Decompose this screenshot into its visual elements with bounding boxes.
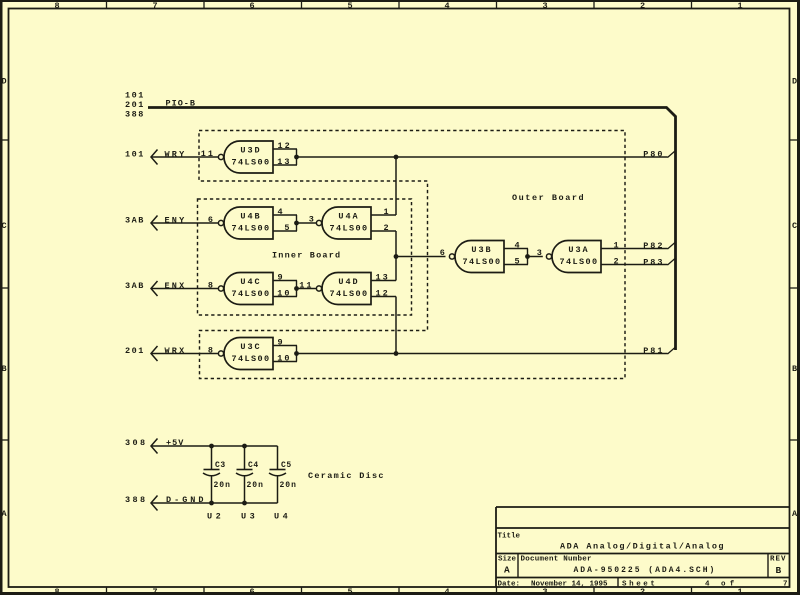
svg-text:1: 1: [384, 207, 390, 217]
svg-text:P81: P81: [643, 346, 664, 356]
svg-text:12: 12: [278, 141, 292, 151]
svg-text:8: 8: [208, 346, 215, 356]
svg-text:12: 12: [376, 289, 390, 299]
svg-text:PIO-B: PIO-B: [166, 99, 197, 109]
svg-text:U4: U4: [274, 512, 291, 522]
svg-text:REV: REV: [770, 556, 787, 564]
svg-text:11: 11: [299, 281, 313, 291]
svg-text:Inner Board: Inner Board: [272, 251, 341, 261]
svg-text:20n: 20n: [280, 481, 297, 490]
svg-text:74LS00: 74LS00: [462, 257, 501, 267]
svg-text:9: 9: [278, 273, 285, 283]
svg-text:74LS00: 74LS00: [559, 257, 598, 267]
svg-text:A: A: [504, 564, 510, 575]
svg-text:U3C: U3C: [240, 342, 261, 352]
svg-text:C5: C5: [281, 461, 292, 470]
svg-text:8: 8: [54, 1, 59, 11]
svg-text:U3B: U3B: [471, 245, 492, 255]
svg-text:10: 10: [277, 289, 291, 299]
svg-text:1: 1: [614, 241, 620, 251]
svg-text:ADA-950225 (ADA4.SCH): ADA-950225 (ADA4.SCH): [574, 566, 717, 575]
svg-text:U4A: U4A: [338, 212, 359, 222]
svg-text:74LS00: 74LS00: [231, 224, 270, 234]
svg-text:101: 101: [125, 149, 145, 159]
svg-text:4: 4: [515, 241, 521, 251]
svg-text:U4B: U4B: [240, 212, 261, 222]
svg-text:U3D: U3D: [240, 146, 261, 156]
svg-text:Sheet: Sheet: [622, 581, 658, 589]
svg-text:U3A: U3A: [568, 245, 589, 255]
svg-text:Date:: Date:: [498, 581, 521, 589]
svg-text:4: 4: [444, 587, 449, 595]
svg-text:10: 10: [277, 354, 291, 364]
svg-text:5: 5: [347, 1, 352, 11]
svg-text:3AB: 3AB: [125, 215, 145, 225]
svg-text:4: 4: [444, 1, 449, 11]
svg-text:5: 5: [347, 587, 352, 595]
svg-text:4: 4: [705, 581, 710, 589]
svg-text:20n: 20n: [247, 481, 264, 490]
svg-text:Outer Board: Outer Board: [512, 193, 585, 203]
svg-text:7: 7: [152, 587, 157, 595]
svg-text:13: 13: [277, 157, 291, 167]
svg-text:Size: Size: [498, 556, 517, 564]
svg-text:13: 13: [376, 273, 390, 283]
svg-text:B: B: [776, 565, 782, 576]
svg-text:2: 2: [384, 223, 390, 233]
svg-text:2: 2: [640, 1, 645, 11]
svg-text:ADA Analog/Digital/Analog: ADA Analog/Digital/Analog: [560, 542, 725, 552]
svg-text:74LS00: 74LS00: [329, 289, 368, 299]
svg-text:5: 5: [284, 223, 291, 233]
svg-text:of: of: [721, 581, 738, 589]
svg-text:3AB: 3AB: [125, 281, 145, 291]
svg-text:388: 388: [125, 495, 148, 505]
svg-text:1: 1: [737, 1, 742, 11]
svg-text:Ceramic Disc: Ceramic Disc: [308, 471, 385, 481]
svg-text:74LS00: 74LS00: [231, 158, 270, 168]
svg-text:3: 3: [537, 248, 543, 258]
svg-text:B: B: [792, 364, 797, 374]
svg-text:November 14, 1995: November 14, 1995: [531, 581, 608, 589]
svg-text:WRX: WRX: [165, 346, 187, 356]
svg-text:A: A: [1, 509, 7, 519]
svg-text:2: 2: [614, 257, 620, 267]
svg-text:7: 7: [152, 1, 157, 11]
svg-text:B: B: [1, 364, 6, 374]
svg-text:U4C: U4C: [240, 277, 261, 287]
svg-text:5: 5: [515, 257, 521, 267]
svg-text:U2: U2: [207, 512, 224, 522]
svg-text:8: 8: [54, 587, 59, 595]
svg-text:D-GND: D-GND: [166, 495, 207, 505]
svg-text:388: 388: [125, 110, 145, 120]
svg-text:201: 201: [125, 100, 145, 110]
svg-text:11: 11: [201, 149, 215, 159]
svg-text:74LS00: 74LS00: [231, 354, 270, 364]
svg-text:20n: 20n: [214, 481, 231, 490]
svg-text:C: C: [1, 221, 6, 231]
svg-text:A: A: [792, 509, 798, 519]
svg-text:6: 6: [208, 215, 215, 225]
svg-text:201: 201: [125, 346, 145, 356]
svg-text:C: C: [792, 221, 797, 231]
svg-text:6: 6: [249, 587, 254, 595]
svg-text:4: 4: [278, 207, 285, 217]
svg-text:74LS00: 74LS00: [231, 289, 270, 299]
svg-text:+5V: +5V: [166, 438, 184, 448]
svg-text:C4: C4: [248, 461, 259, 470]
svg-text:308: 308: [125, 438, 148, 448]
svg-text:D: D: [792, 77, 797, 87]
svg-text:D: D: [1, 77, 6, 87]
svg-text:ENX: ENX: [165, 281, 187, 291]
svg-text:3: 3: [309, 215, 315, 225]
svg-text:Title: Title: [498, 533, 521, 541]
svg-text:U3: U3: [241, 512, 258, 522]
svg-text:P83: P83: [643, 258, 664, 268]
svg-text:7: 7: [783, 581, 788, 589]
svg-text:P80: P80: [643, 150, 664, 160]
svg-text:Document Number: Document Number: [521, 556, 592, 564]
svg-text:P82: P82: [643, 241, 664, 251]
svg-text:8: 8: [208, 281, 215, 291]
svg-text:ENY: ENY: [165, 216, 187, 226]
svg-text:6: 6: [440, 248, 446, 258]
svg-text:6: 6: [249, 1, 254, 11]
svg-text:101: 101: [125, 91, 145, 101]
svg-text:U4D: U4D: [338, 277, 359, 287]
svg-text:C3: C3: [215, 461, 226, 470]
svg-text:74LS00: 74LS00: [329, 224, 368, 234]
svg-text:3: 3: [542, 1, 547, 11]
svg-text:WRY: WRY: [165, 150, 187, 160]
svg-text:9: 9: [278, 338, 285, 348]
